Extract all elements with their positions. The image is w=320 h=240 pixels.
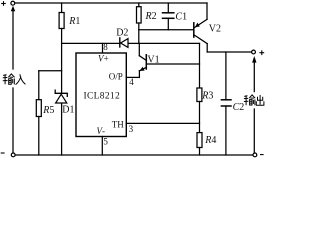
svg-text:+: +: [104, 53, 109, 63]
svg-text:D2: D2: [116, 28, 128, 39]
svg-text:D1: D1: [62, 104, 74, 115]
svg-text:ICL8212: ICL8212: [84, 92, 121, 102]
svg-text:5: 5: [103, 137, 108, 147]
svg-text:4: 4: [129, 77, 134, 87]
svg-text:-: -: [102, 126, 105, 136]
svg-text:R1: R1: [68, 16, 80, 27]
svg-text:V1: V1: [147, 54, 159, 65]
svg-text:R2: R2: [145, 11, 157, 22]
svg-text:V2: V2: [209, 23, 221, 34]
svg-text:TH: TH: [112, 119, 124, 129]
svg-text:R5: R5: [42, 105, 54, 116]
svg-text:3: 3: [129, 124, 134, 134]
svg-text:R4: R4: [204, 135, 216, 146]
svg-text:O/P: O/P: [109, 72, 123, 82]
svg-text:R3: R3: [201, 91, 213, 102]
svg-text:C1: C1: [175, 12, 187, 23]
svg-text:C2: C2: [233, 102, 245, 113]
svg-text:8: 8: [103, 42, 108, 52]
